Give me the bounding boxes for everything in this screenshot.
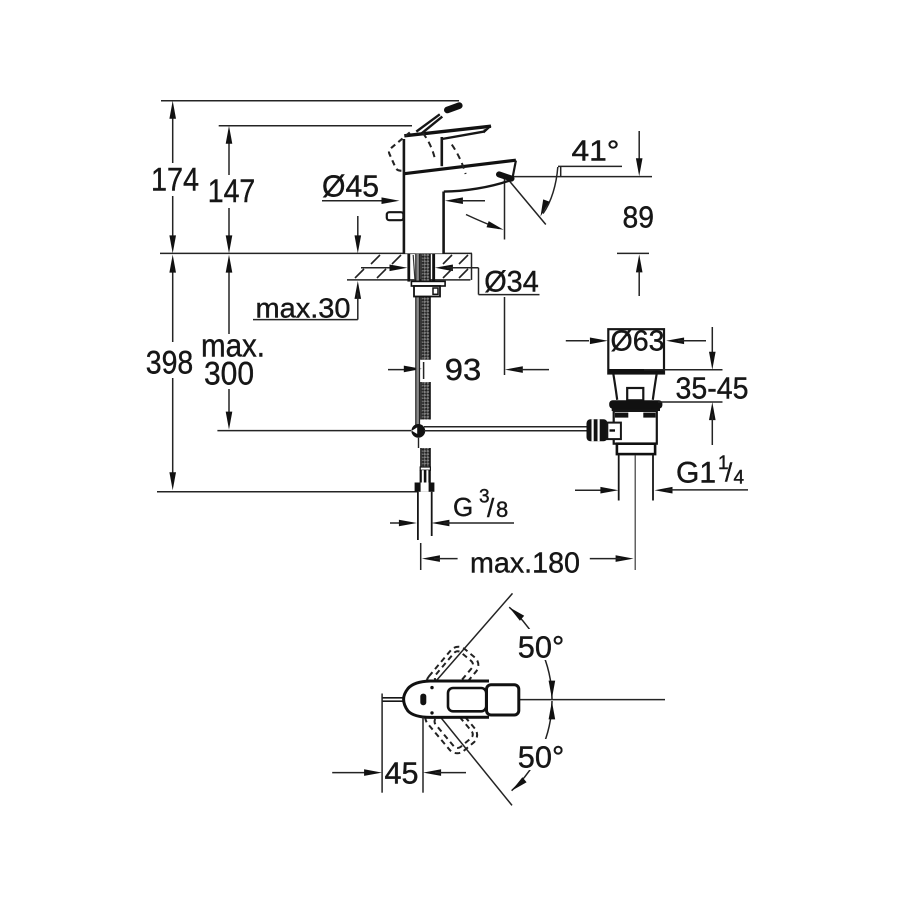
svg-text:50°: 50°: [518, 630, 565, 665]
svg-text:50°: 50°: [518, 739, 565, 774]
svg-text:4: 4: [734, 468, 745, 489]
svg-text:Ø45: Ø45: [322, 169, 379, 204]
svg-text:max.30: max.30: [256, 293, 351, 324]
svg-text:174: 174: [151, 162, 199, 198]
svg-text:300: 300: [204, 356, 254, 392]
svg-text:/: /: [487, 493, 495, 523]
svg-text:G1: G1: [676, 457, 716, 490]
svg-text:45: 45: [385, 756, 419, 791]
svg-text:max.180: max.180: [470, 547, 580, 579]
svg-text:398: 398: [146, 345, 194, 381]
svg-text:G: G: [453, 492, 473, 522]
svg-text:147: 147: [208, 173, 256, 209]
svg-text:8: 8: [496, 497, 508, 522]
svg-text:35-45: 35-45: [676, 371, 749, 406]
svg-text:89: 89: [623, 200, 655, 235]
svg-text:Ø63: Ø63: [611, 326, 665, 358]
svg-text:/: /: [725, 458, 733, 488]
svg-text:93: 93: [445, 352, 482, 387]
svg-text:Ø34: Ø34: [484, 266, 539, 299]
svg-text:41°: 41°: [572, 136, 620, 168]
